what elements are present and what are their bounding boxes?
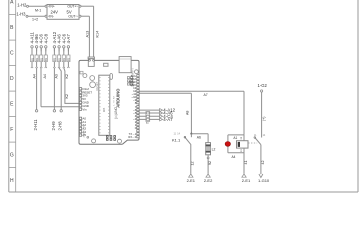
terminal 2-E1b triangle — [242, 174, 246, 177]
svg-text:42: 42 — [261, 161, 265, 165]
pin 1 — [137, 124, 139, 126]
connector block — [146, 112, 150, 122]
capacitor C1 — [90, 76, 95, 81]
pin 7 — [137, 106, 139, 108]
frame row separator tick D — [9, 65, 16, 67]
svg-text:F: F — [10, 127, 13, 133]
svg-text:‹IN-: ‹IN- — [48, 15, 54, 19]
pin 12 — [137, 90, 139, 92]
svg-text:L2: L2 — [212, 147, 216, 151]
terminal block 4-A12 pin mark — [53, 62, 55, 67]
mounting hole bottom-left — [92, 139, 96, 143]
barrel jack cap — [88, 57, 94, 59]
pin GND — [79, 105, 81, 107]
terminal 4-C6 circle — [40, 46, 42, 48]
wire coil top stub — [243, 135, 245, 141]
pin 4 — [137, 115, 139, 117]
pin ~10 — [137, 96, 139, 98]
terminal 4-A6 circle — [58, 46, 60, 48]
relay coil pin mark top — [240, 137, 242, 139]
pin ~6 — [137, 109, 139, 111]
pin ~9 — [137, 99, 139, 101]
svg-text:11 14: 11 14 — [174, 132, 181, 135]
svg-text:MB: MB — [102, 108, 106, 113]
terminal block 4-B6 pin mark — [36, 62, 38, 67]
mechanical link dashes — [248, 142, 257, 144]
wire 4-A11 stub — [31, 48, 33, 51]
svg-text:1+2: 1+2 — [32, 18, 38, 22]
svg-text:Vin: Vin — [82, 107, 87, 111]
svg-text:K2: K2 — [65, 74, 69, 78]
svg-text:1-G10: 1-G10 — [258, 178, 270, 183]
pin 13 — [137, 87, 139, 89]
svg-text:2-E1: 2-E1 — [187, 178, 196, 183]
terminal 4-C8 circle — [45, 46, 47, 48]
wire OUT- to corner — [81, 15, 89, 17]
svg-text:RX←0: RX←0 — [128, 135, 136, 139]
wire to terminal 4-A7 — [139, 118, 159, 120]
wire to terminal 4-C4 — [139, 115, 159, 117]
pin IN+ circle — [45, 5, 47, 7]
frame right border line — [357, 0, 359, 192]
pin SDA — [137, 78, 139, 80]
contact K1 blade — [255, 138, 261, 145]
relay LED branch left wire — [227, 135, 229, 153]
svg-text:A4: A4 — [232, 155, 236, 159]
relay LED branch top wire — [228, 134, 244, 136]
svg-text:RESET: RESET — [95, 81, 99, 90]
svg-text:1-G2: 1-G2 — [258, 83, 268, 88]
frame row separator tick E — [9, 90, 16, 92]
svg-text:C: C — [10, 51, 14, 57]
terminal 4-C4 arrow — [160, 115, 163, 118]
terminal 2-H9 circle — [53, 110, 55, 112]
frame row separator tick F — [9, 116, 16, 118]
frame row-band inner line — [15, 0, 17, 192]
frame bottom border line — [9, 191, 358, 193]
wire OUT+ to corner — [81, 5, 94, 7]
mounting hole bottom-center — [118, 139, 122, 143]
wire down to K1.1 junction — [190, 93, 192, 133]
svg-text:A8: A8 — [186, 111, 190, 115]
svg-text:(∞)UNO: (∞)UNO — [114, 106, 118, 118]
terminal block 4-C6 — [40, 48, 42, 55]
pin RESET — [79, 91, 81, 93]
frame row separator tick H — [9, 167, 16, 169]
svg-text:A7: A7 — [204, 93, 208, 97]
wire 4-A12 stub — [53, 48, 55, 51]
svg-text:A4: A4 — [32, 74, 36, 78]
svg-text:K1.1: K1.1 — [172, 138, 181, 143]
pin AREF — [137, 81, 139, 83]
terminal 2-H8 circle — [60, 110, 62, 112]
ON LED silkscreen — [104, 63, 108, 66]
pin OUT+ circle — [79, 5, 81, 7]
wire 1-G2 down — [261, 92, 263, 137]
terminal 4-A7 arrow — [160, 118, 163, 121]
wire digital pin to corner K1.1 — [139, 92, 191, 94]
relay coil pin mark bottom — [240, 149, 242, 151]
pin IOref — [79, 88, 81, 90]
wire L2 to pin circle — [207, 155, 209, 157]
terminal 2-E2 triangle — [206, 174, 210, 177]
crystal oscillator — [110, 73, 113, 79]
wire 1-H2 to IN+ — [29, 5, 45, 7]
power supply converter box 24V to 5V — [47, 5, 79, 20]
svg-text:K14: K14 — [96, 31, 100, 38]
terminal block 4-B6 — [36, 48, 38, 55]
terminal block 4-A11 pin mark — [31, 62, 33, 67]
terminal block 4-C6 — [63, 48, 65, 55]
svg-text:K2: K2 — [65, 94, 69, 98]
barrel power jack — [88, 59, 94, 67]
svg-text:2-E1: 2-E1 — [242, 178, 251, 183]
pin GND — [137, 84, 139, 86]
wire A7 down to relay coil — [243, 91, 245, 135]
wire 4-C6 down — [40, 68, 42, 107]
svg-text:A3: A3 — [55, 74, 59, 78]
pin SCL — [137, 75, 139, 77]
svg-text:24V: 24V — [51, 9, 59, 14]
svg-text:1-H3: 1-H3 — [16, 12, 26, 17]
wire OUT- down to power jack — [88, 16, 90, 59]
pin 8 — [137, 102, 139, 104]
svg-text:1-H2: 1-H2 — [17, 2, 27, 7]
wire to terminal 4-A12 — [139, 109, 159, 111]
wire contact down to 1-G10 — [260, 145, 262, 175]
svg-text:2-E2: 2-E2 — [204, 178, 213, 183]
svg-text:D: D — [10, 76, 14, 82]
pin ~11 — [137, 93, 139, 95]
pin extra1 — [137, 133, 139, 135]
terminal 1-G2 circle — [261, 90, 263, 92]
microcontroller IC ATmega328 — [99, 75, 110, 135]
svg-text:2-H11: 2-H11 — [33, 119, 38, 131]
pin A4 — [79, 131, 81, 133]
svg-text:A6: A6 — [197, 136, 201, 140]
wire 4-A7 stub — [67, 48, 69, 51]
capacitor C2 — [90, 82, 96, 88]
pin A3 — [79, 127, 81, 129]
terminal 4-A11 circle — [31, 46, 33, 48]
wire 4-A12 down to 2-H9 — [53, 68, 55, 110]
terminal 2-E1 triangle — [189, 174, 193, 177]
terminal 4-A12 circle — [53, 46, 55, 48]
svg-text:2-H9: 2-H9 — [51, 121, 56, 131]
svg-text:‹IN+: ‹IN+ — [48, 5, 55, 9]
pin circle L2 — [207, 157, 209, 159]
pin ~5 — [137, 112, 139, 114]
small via circle — [87, 136, 89, 138]
svg-text:OUT+›: OUT+› — [67, 5, 77, 9]
relay coil K1 — [237, 141, 249, 148]
wire 4-C6 to board GND — [41, 106, 79, 108]
pin 5V — [79, 98, 81, 100]
wire down to resistor L2 — [207, 134, 209, 143]
pin 3V3 — [79, 94, 81, 96]
pin Vin — [79, 108, 81, 110]
pin ~3 — [137, 118, 139, 120]
Arduino Uno board outline — [79, 60, 139, 144]
wire digital pin to net A7 — [139, 90, 244, 92]
pin 2 — [137, 121, 139, 123]
wire 4-C6 stub — [40, 48, 42, 51]
svg-text:4-A7: 4-A7 — [163, 117, 173, 122]
wire L2 down to 2-E2 — [207, 159, 209, 174]
svg-text:(+): (+) — [262, 117, 266, 121]
svg-text:H: H — [10, 178, 14, 184]
wire 4-C8 stub — [45, 48, 47, 51]
silkscreen small rect left edge — [80, 71, 83, 74]
terminal 2-H11 circle — [35, 110, 37, 112]
pin extra0 — [137, 130, 139, 132]
pin A2 — [79, 124, 81, 126]
pin IN- circle — [45, 15, 47, 17]
svg-text:ANALOG IN: ANALOG IN — [83, 125, 86, 137]
USB connector — [119, 57, 131, 73]
svg-text:A13: A13 — [85, 31, 89, 38]
svg-text:2-H8: 2-H8 — [58, 121, 63, 131]
pin A0 — [79, 117, 81, 119]
terminal block 4-C8 pin mark — [45, 62, 47, 67]
wire 4-A6 down to 2-H8 — [59, 68, 61, 110]
resistor L2 — [206, 143, 211, 155]
svg-text:41: 41 — [244, 161, 248, 165]
terminal block 4-A6 — [58, 48, 60, 55]
terminal 4-A6 arrow — [160, 112, 163, 115]
wire 4-B6 stub — [36, 48, 38, 51]
pin A1 — [79, 121, 81, 123]
contact K1.1 blade — [185, 137, 191, 145]
pin 0 — [137, 127, 139, 129]
wire junction to L2 branch — [191, 133, 208, 135]
wire 4-A6 stub — [58, 48, 60, 51]
wire OUT+ down to power jack — [93, 6, 95, 59]
svg-text:4-C8: 4-C8 — [43, 33, 48, 43]
wire coil down to 2-E1 — [243, 148, 245, 174]
ICSP2 header — [127, 77, 129, 79]
svg-text:4-A7: 4-A7 — [66, 34, 71, 44]
frame row separator tick C — [9, 39, 16, 41]
terminal 1-G10 arrow — [259, 174, 263, 178]
wire 4-C6 stub — [63, 48, 65, 51]
frame row separator tick G — [9, 141, 16, 143]
svg-text:OUT-›: OUT-› — [68, 15, 77, 19]
ICSP header — [106, 135, 109, 138]
terminal 1-H3 circle — [26, 15, 28, 17]
terminal 4-A7 circle — [67, 46, 69, 48]
svg-text:L TX RX: L TX RX — [114, 95, 116, 105]
jack pin circle 2 — [93, 59, 95, 61]
wire 4-B6 down to 2-H11 — [36, 68, 38, 110]
terminal block 4-A7 — [67, 48, 69, 55]
contact K1.1 top stub — [190, 134, 192, 138]
pin GND — [79, 101, 81, 103]
terminal block 4-A7 pin mark — [67, 62, 69, 67]
frame left border line — [8, 0, 10, 192]
terminal block 4-A6 pin mark — [58, 62, 60, 67]
terminal block 4-A11 — [31, 48, 33, 55]
terminal 4-A12 arrow — [160, 109, 163, 112]
frame row separator tick B — [9, 14, 16, 16]
terminal 4-B6 circle — [35, 46, 37, 48]
jack pin circle 1 — [89, 59, 91, 61]
pin A5 — [79, 134, 81, 136]
wire to terminal 4-A6 — [139, 112, 159, 114]
wire K1.1 down to 2-E1 — [190, 145, 192, 174]
wire 1-H3 to IN- — [28, 15, 45, 17]
svg-text:M-1: M-1 — [35, 9, 41, 13]
svg-text:A4: A4 — [43, 74, 47, 78]
terminal block 4-C6 pin mark — [63, 62, 65, 67]
svg-text:5V: 5V — [67, 9, 72, 14]
LED indicator red — [225, 142, 230, 147]
terminal block 4-C6 pin mark — [40, 62, 42, 67]
wire 4-C6b down — [64, 68, 79, 103]
pin extra2 — [137, 136, 139, 138]
terminal block 4-A12 — [53, 48, 55, 55]
mounting hole top-left — [83, 74, 87, 78]
pin OUT- circle — [79, 15, 81, 17]
terminal block 4-C8 — [45, 48, 47, 55]
terminal 4-C6 circle — [63, 46, 65, 48]
relay LED branch bottom wire — [228, 152, 244, 154]
svg-text:12: 12 — [191, 162, 195, 166]
terminal 1-H2 circle — [27, 5, 29, 7]
svg-text:A1: A1 — [233, 136, 237, 140]
svg-text:ARDUINO: ARDUINO — [115, 88, 120, 108]
mounting hole right — [135, 70, 139, 74]
junction dot K1.1 branch — [190, 133, 192, 135]
svg-text:G: G — [10, 153, 14, 159]
